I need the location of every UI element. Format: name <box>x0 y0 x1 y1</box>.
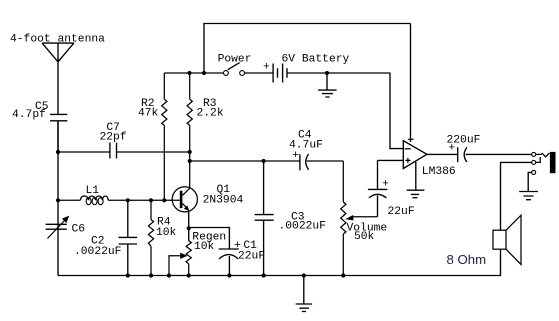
node emitter/C1 <box>187 226 191 230</box>
resistor R2 <box>138 73 167 200</box>
svg-text:Power: Power <box>218 54 252 66</box>
capacitor C4 <box>289 130 343 171</box>
svg-text:+: + <box>292 150 299 162</box>
capacitor 220uF <box>427 135 532 163</box>
wire top rail <box>204 24 411 74</box>
ground battery <box>318 73 336 97</box>
ground bottom rail <box>296 276 313 312</box>
node rail ground <box>302 273 306 277</box>
svg-text:22uF: 22uF <box>388 206 415 218</box>
wire 22uF to LM386 plus input <box>378 159 405 161</box>
svg-text:8 Ohm: 8 Ohm <box>447 252 487 267</box>
node rail R4 <box>149 273 153 277</box>
svg-text:47k: 47k <box>138 108 159 120</box>
capacitor C7 <box>100 122 127 159</box>
node rail volume <box>341 273 345 277</box>
node tank top <box>56 198 60 202</box>
svg-text:2.2k: 2.2k <box>197 108 224 120</box>
capacitor C3 <box>255 161 326 276</box>
node rail C3 <box>262 273 266 277</box>
svg-text:50k: 50k <box>354 231 375 243</box>
wire collector to C4 <box>190 160 300 162</box>
node antenna/C7 junction <box>56 150 60 154</box>
svg-text:+: + <box>448 142 455 154</box>
wire switch to battery <box>245 72 273 74</box>
node collector/C4 <box>188 159 192 163</box>
svg-text:.0022uF: .0022uF <box>74 246 121 258</box>
antenna <box>42 43 74 114</box>
resistor R4 <box>148 200 176 275</box>
svg-text:2N3904: 2N3904 <box>203 195 244 207</box>
wire left vertical to tank <box>57 121 59 276</box>
node rail regen wiper <box>167 273 171 277</box>
transistor Q1 <box>172 184 243 212</box>
svg-text:LM386: LM386 <box>422 166 456 178</box>
wire emitter to C1 <box>189 228 230 250</box>
node R4 top <box>149 198 153 202</box>
node C2 top <box>126 198 130 202</box>
wire emitter down <box>188 211 190 240</box>
node collector/C7 <box>188 150 192 154</box>
node rail regen <box>187 273 191 277</box>
svg-text:.0022uF: .0022uF <box>279 220 326 232</box>
inductor L1 <box>58 185 180 205</box>
jack J1 tip contact <box>532 152 536 156</box>
power wire <box>164 72 223 74</box>
node top rail drop <box>202 71 206 75</box>
svg-text:+: + <box>263 61 270 73</box>
potentiometer Volume 50k <box>341 161 388 276</box>
capacitor 22uF <box>368 160 415 218</box>
op-amp U1 LM386 <box>403 24 456 178</box>
wire battery to LM386 minus <box>287 73 403 149</box>
node battery ground <box>325 71 329 75</box>
node rail C2 <box>126 273 130 277</box>
ground LM386 <box>407 162 425 198</box>
node rail C1 <box>227 273 231 277</box>
wire C7 to collector node <box>117 151 190 153</box>
ground jack <box>519 192 538 200</box>
capacitor C5 <box>12 101 67 152</box>
node C3 top <box>262 159 266 163</box>
node R3 top <box>187 71 191 75</box>
jack sleeve to ground <box>528 172 532 191</box>
jack ring contact <box>532 160 536 164</box>
wire speaker to rail <box>499 249 502 275</box>
svg-text:L1: L1 <box>86 185 100 197</box>
wire bottom rail <box>58 275 501 277</box>
variable capacitor C6 <box>46 216 86 239</box>
svg-text:6V Battery: 6V Battery <box>282 54 350 66</box>
resistor R3 <box>187 73 224 188</box>
svg-text:4.7pf: 4.7pf <box>12 109 46 121</box>
jack plug body <box>550 152 556 173</box>
svg-text:10k: 10k <box>156 227 177 239</box>
svg-text:C6: C6 <box>72 224 86 236</box>
jack tip spring <box>536 153 550 157</box>
svg-text:+: + <box>382 179 389 191</box>
svg-text:22pf: 22pf <box>100 132 127 144</box>
jack ring lead <box>536 157 541 162</box>
capacitor C2 <box>74 200 137 275</box>
switch Power <box>218 54 252 76</box>
wire jack ring to speaker <box>501 162 532 230</box>
svg-text:22uF: 22uF <box>238 250 265 262</box>
potentiometer Regen 10k <box>169 231 226 275</box>
jack sleeve contact <box>532 170 536 174</box>
wire to C7 <box>58 151 110 153</box>
node R2 bottom <box>162 198 166 202</box>
battery 6V <box>263 54 350 83</box>
svg-text:10k: 10k <box>194 241 215 253</box>
speaker SP1 <box>447 215 522 267</box>
capacitor C1 <box>219 240 265 276</box>
